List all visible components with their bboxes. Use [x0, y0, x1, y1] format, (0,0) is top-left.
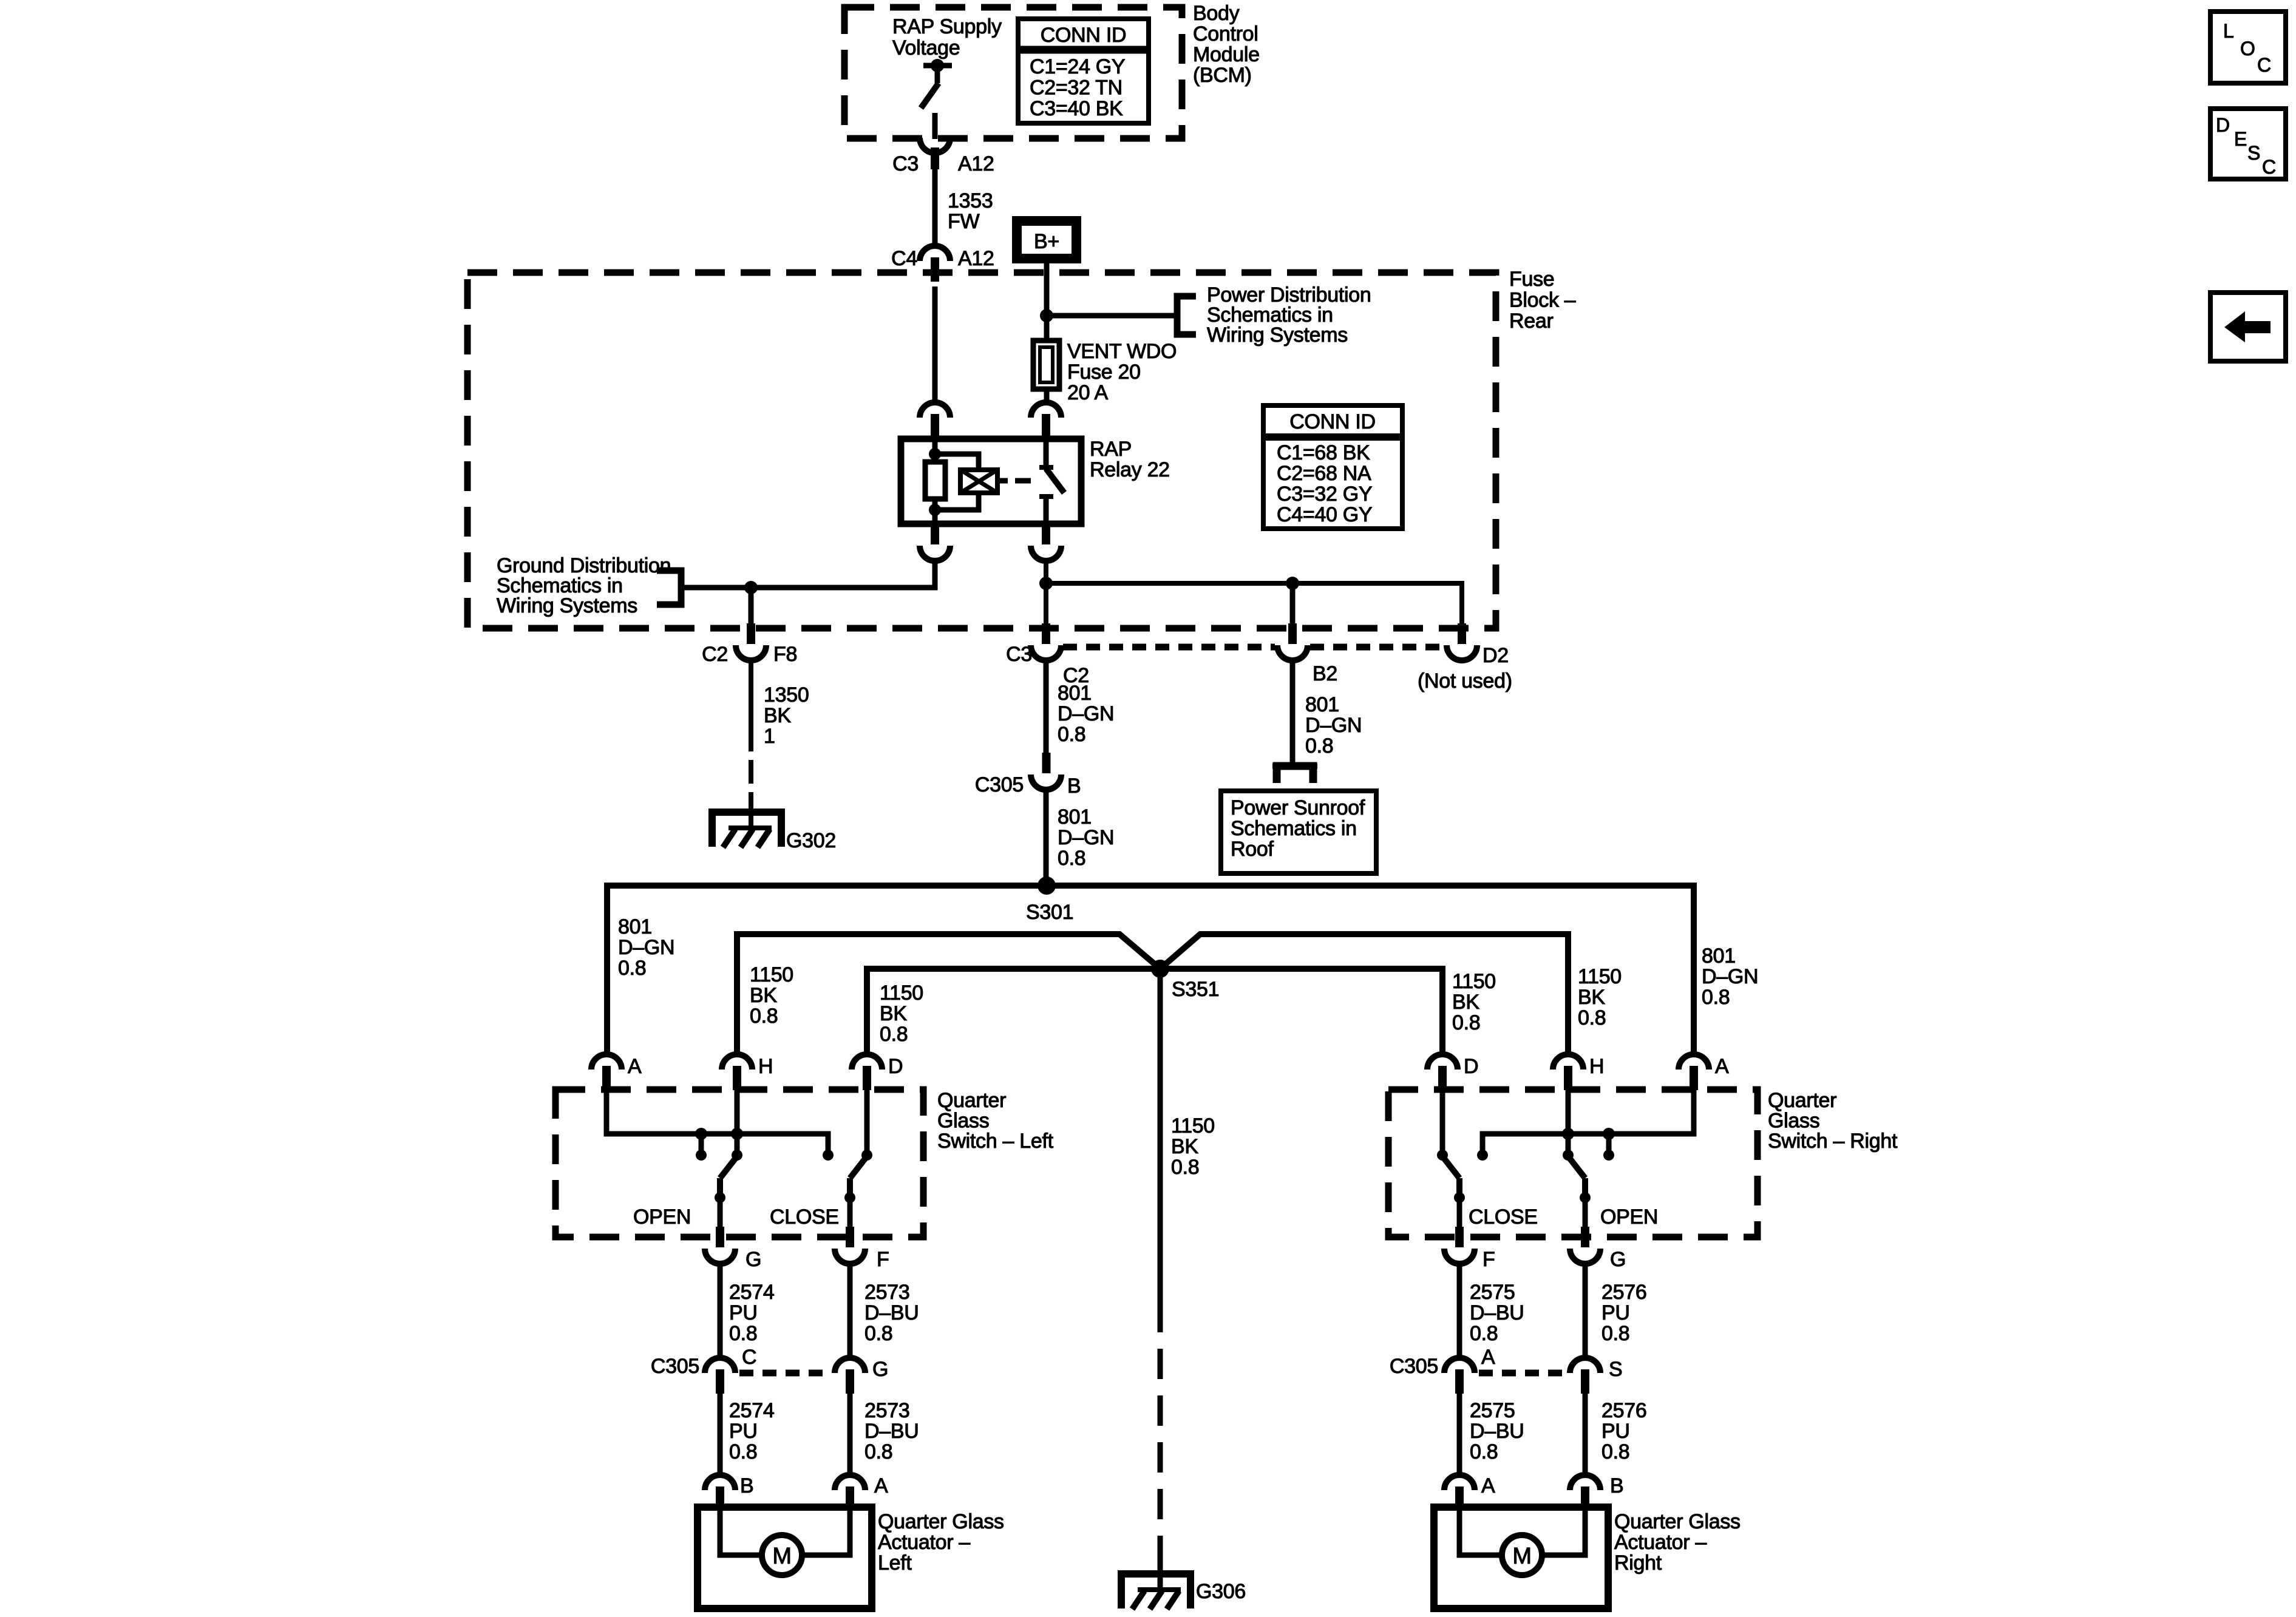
svg-text:0.8: 0.8	[1601, 1440, 1629, 1463]
svg-text:D–BU: D–BU	[864, 1301, 919, 1324]
wire 2574 PU 0.8 (G to C305)	[718, 1264, 723, 1360]
contact stub (OPEN side right)	[1603, 1128, 1615, 1140]
svg-text:C3=40 BK: C3=40 BK	[1030, 97, 1123, 120]
wire BCM switch to C3	[932, 113, 938, 139]
svg-text:C1=24 GY: C1=24 GY	[1030, 55, 1125, 78]
connector H (left switch)	[722, 1054, 752, 1070]
node junction to B2	[1286, 577, 1299, 590]
svg-text:C: C	[742, 1346, 756, 1369]
svg-text:VENT WDO: VENT WDO	[1067, 340, 1177, 363]
svg-text:G: G	[1610, 1248, 1626, 1271]
wire H through bus to pivot (right)	[1566, 1090, 1571, 1153]
svg-text:CONN ID: CONN ID	[1041, 24, 1126, 47]
node: B+ junction to power distribution note	[1040, 309, 1053, 322]
svg-text:B: B	[1067, 775, 1081, 798]
svg-text:0.8: 0.8	[1702, 986, 1730, 1009]
svg-text:M: M	[772, 1544, 791, 1569]
svg-text:CLOSE: CLOSE	[770, 1205, 839, 1229]
relay switch contacts	[1044, 439, 1049, 467]
svg-text:L: L	[2223, 20, 2234, 42]
svg-text:(BCM): (BCM)	[1193, 64, 1252, 87]
svg-text:A: A	[628, 1055, 642, 1078]
svg-text:C: C	[2262, 156, 2276, 178]
svg-text:G: G	[872, 1358, 888, 1381]
svg-text:0.8: 0.8	[1452, 1011, 1480, 1034]
icon DESC box	[2210, 109, 2286, 179]
svg-text:Relay 22: Relay 22	[1090, 458, 1170, 481]
svg-text:Quarter Glass: Quarter Glass	[878, 1510, 1004, 1533]
svg-text:A: A	[1481, 1474, 1495, 1497]
connector C305 pin B (in-line)	[1042, 753, 1051, 773]
dotted link C305 A-S	[1479, 1370, 1566, 1377]
connector relay coil input (dome)	[920, 402, 950, 418]
svg-text:Body: Body	[1193, 2, 1240, 25]
svg-text:0.8: 0.8	[1171, 1156, 1199, 1179]
svg-text:801: 801	[1702, 944, 1736, 968]
ground G306	[1158, 1542, 1163, 1590]
relay coil winding box with X	[935, 454, 979, 471]
svg-text:B+: B+	[1034, 230, 1059, 253]
wire D to pivot (CLOSE right)	[1440, 1090, 1445, 1153]
svg-text:Voltage: Voltage	[892, 36, 960, 59]
wire 1150 BK 0.8 to left switch H	[735, 934, 740, 1054]
svg-text:0.8: 0.8	[1058, 723, 1085, 746]
svg-text:C4=40 GY: C4=40 GY	[1277, 503, 1372, 526]
connector F (right switch exit)	[1444, 1249, 1475, 1264]
svg-text:Schematics in: Schematics in	[1231, 817, 1357, 840]
svg-text:Quarter: Quarter	[937, 1089, 1006, 1112]
svg-text:Fuse: Fuse	[1509, 268, 1554, 291]
Quarter Glass Switch - Left dashed box	[555, 1090, 923, 1237]
svg-text:RAP: RAP	[1090, 438, 1132, 461]
svg-text:C: C	[2257, 54, 2271, 76]
svg-text:E: E	[2234, 128, 2247, 150]
node S301 splice	[607, 886, 1694, 1054]
connector G (right switch exit)	[1570, 1249, 1600, 1264]
svg-text:C3: C3	[1006, 643, 1032, 666]
svg-text:Glass: Glass	[1768, 1110, 1819, 1133]
svg-text:BK: BK	[764, 704, 791, 727]
svg-text:RAP Supply: RAP Supply	[892, 15, 1002, 38]
svg-text:A: A	[1481, 1346, 1495, 1369]
svg-text:Right: Right	[1614, 1551, 1662, 1575]
svg-text:2574: 2574	[729, 1281, 774, 1304]
svg-text:C305: C305	[651, 1355, 699, 1378]
connector C3 pin A12 (BCM exit)	[920, 138, 950, 153]
connector B (left actuator)	[705, 1475, 735, 1490]
connector C3 pin C2 (fuse block exit)	[1031, 645, 1061, 660]
svg-text:D–GN: D–GN	[1058, 826, 1114, 849]
svg-text:0.8: 0.8	[1601, 1322, 1629, 1345]
svg-text:2576: 2576	[1601, 1399, 1646, 1422]
wire 2573 D-BU 0.8 (C305 to actuator A)	[847, 1394, 853, 1475]
svg-text:Glass: Glass	[937, 1110, 989, 1133]
connector C305 pin A (in-line right)	[1444, 1358, 1475, 1373]
svg-text:A: A	[874, 1474, 888, 1497]
wire 801 D-GN 0.8 left branch to switch A	[605, 886, 610, 1054]
wire 1150 BK 0.8 to right switch H	[1566, 934, 1571, 1054]
svg-text:2575: 2575	[1470, 1281, 1515, 1304]
svg-text:801: 801	[1058, 805, 1092, 829]
wire blade to connector G	[718, 1198, 723, 1228]
svg-text:Left: Left	[878, 1551, 912, 1575]
svg-text:Quarter: Quarter	[1768, 1089, 1836, 1112]
svg-text:D: D	[1464, 1055, 1478, 1078]
svg-text:D–BU: D–BU	[1470, 1420, 1524, 1443]
svg-text:D–GN: D–GN	[1058, 702, 1114, 725]
Fuse Block - Rear dashed box	[467, 273, 1496, 628]
dotted connector-row link C3-B2-D2	[1063, 644, 1275, 651]
svg-text:C2: C2	[702, 643, 728, 666]
svg-text:Actuator –: Actuator –	[878, 1531, 970, 1554]
wire B+ junction to fuse	[1044, 316, 1050, 343]
svg-text:(Not used): (Not used)	[1418, 670, 1512, 693]
connector C305 pin C (in-line)	[705, 1358, 735, 1373]
svg-text:0.8: 0.8	[1305, 734, 1333, 758]
svg-text:PU: PU	[1601, 1420, 1630, 1443]
wire 801 D-GN 0.8 (C3 to C305)	[1044, 660, 1049, 754]
svg-text:D2: D2	[1483, 644, 1509, 667]
connector C305 pin G (in-line)	[835, 1358, 865, 1373]
svg-text:0.8: 0.8	[1470, 1322, 1498, 1345]
motor M (right actuator)	[1459, 1511, 1502, 1555]
wire A into right switch bus	[1483, 1090, 1694, 1152]
wire 2573 D-BU 0.8 (F to C305)	[847, 1264, 853, 1360]
svg-text:1350: 1350	[764, 683, 809, 707]
svg-text:CONN ID: CONN ID	[1289, 410, 1375, 433]
svg-text:M: M	[1512, 1544, 1531, 1569]
svg-text:S351: S351	[1172, 978, 1219, 1001]
icon back-arrow box	[2210, 293, 2286, 361]
wire 801 D-GN 0.8 (B2 branch)	[1290, 660, 1296, 763]
svg-text:D–BU: D–BU	[864, 1420, 919, 1443]
svg-text:Module: Module	[1193, 43, 1260, 66]
svg-text:C3=32 GY: C3=32 GY	[1277, 483, 1372, 506]
svg-text:Switch – Right: Switch – Right	[1768, 1130, 1898, 1153]
svg-text:2573: 2573	[864, 1281, 909, 1304]
svg-text:PU: PU	[729, 1420, 758, 1443]
svg-text:D–BU: D–BU	[1470, 1301, 1524, 1324]
contact from bus corner (CLOSE side)	[823, 1150, 834, 1161]
svg-text:D–GN: D–GN	[1702, 965, 1758, 988]
svg-text:1150: 1150	[880, 981, 923, 1005]
svg-text:S: S	[1609, 1358, 1622, 1381]
connector C4 pin A12 (fuse block entry)	[920, 246, 950, 261]
svg-text:2576: 2576	[1601, 1281, 1646, 1304]
svg-text:2574: 2574	[729, 1399, 774, 1422]
connector H (right switch)	[1553, 1054, 1583, 1070]
svg-text:D: D	[2216, 114, 2230, 136]
wire C4 to relay coil input	[932, 286, 938, 404]
wire 1350 BK 1	[749, 660, 753, 751]
svg-text:801: 801	[1058, 682, 1092, 705]
svg-text:Fuse 20: Fuse 20	[1067, 361, 1141, 384]
connector relay switch input (dome)	[1031, 402, 1061, 418]
connector B2 (fuse block exit)	[1277, 645, 1308, 660]
svg-text:0.8: 0.8	[729, 1322, 757, 1345]
switch RAP Supply Voltage (inside BCM)	[923, 63, 952, 69]
connector F (left switch exit)	[835, 1249, 865, 1264]
switch blade OPEN (left)	[720, 1156, 737, 1178]
svg-text:0.8: 0.8	[1470, 1440, 1498, 1463]
svg-text:BK: BK	[750, 984, 777, 1007]
svg-text:801: 801	[1305, 693, 1339, 716]
bracket: Power Distribution Schematics in Wiring Systems	[1177, 296, 1196, 334]
wire ground distribution bus	[681, 560, 935, 588]
svg-text:0.8: 0.8	[864, 1322, 892, 1345]
connector D (right switch)	[1427, 1054, 1458, 1070]
switch blade OPEN (right)	[1568, 1156, 1585, 1178]
svg-text:1150: 1150	[1452, 970, 1496, 993]
svg-text:A12: A12	[958, 247, 994, 270]
svg-text:H: H	[1589, 1055, 1604, 1078]
svg-text:CLOSE: CLOSE	[1469, 1205, 1538, 1229]
wire 2576 PU 0.8 (C305 to actuator B)	[1583, 1394, 1588, 1475]
connector B (right actuator)	[1570, 1475, 1600, 1490]
wire 801 D-GN 0.8 right branch to switch A	[1691, 886, 1697, 1054]
Power Sunroof Schematics in Roof box	[1221, 791, 1376, 873]
svg-text:Block –: Block –	[1509, 289, 1576, 312]
svg-text:G: G	[746, 1248, 761, 1271]
svg-text:0.8: 0.8	[880, 1023, 908, 1046]
svg-text:BK: BK	[1171, 1135, 1198, 1158]
connector A (left switch)	[591, 1054, 622, 1070]
svg-text:1150: 1150	[1578, 965, 1622, 988]
wire 1150 BK 0.8 to right switch D	[1440, 969, 1445, 1054]
resistor (relay coil resistor)	[925, 462, 945, 499]
dotted link C305 C-G	[739, 1370, 830, 1377]
svg-text:G302: G302	[786, 829, 836, 852]
svg-text:PU: PU	[729, 1301, 758, 1324]
svg-text:F: F	[877, 1248, 889, 1271]
B+ battery feed box	[1017, 221, 1076, 259]
svg-text:C2=68 NA: C2=68 NA	[1277, 462, 1371, 485]
connector relay switch output (cup)	[1031, 546, 1061, 561]
svg-text:PU: PU	[1601, 1301, 1630, 1324]
svg-text:0.8: 0.8	[1578, 1006, 1606, 1029]
wire 801 D-GN 0.8 (C305 to S301)	[1044, 790, 1049, 886]
svg-text:20 A: 20 A	[1067, 381, 1108, 404]
svg-text:B: B	[740, 1474, 753, 1497]
svg-text:Rear: Rear	[1509, 310, 1554, 333]
contact stub (OPEN side)	[695, 1128, 707, 1140]
Quarter Glass Actuator - Right box	[1434, 1507, 1608, 1609]
svg-text:0.8: 0.8	[729, 1440, 757, 1463]
svg-text:B2: B2	[1313, 662, 1337, 685]
Quarter Glass Actuator - Left box	[698, 1507, 872, 1609]
svg-text:BK: BK	[1452, 991, 1479, 1014]
svg-text:H: H	[758, 1055, 773, 1078]
svg-text:2573: 2573	[864, 1399, 909, 1422]
svg-text:Wiring Systems: Wiring Systems	[1207, 324, 1348, 347]
svg-text:A: A	[1715, 1055, 1729, 1078]
svg-text:Actuator –: Actuator –	[1614, 1531, 1707, 1554]
svg-text:C1=68 BK: C1=68 BK	[1277, 441, 1370, 464]
wire H through bus to pivot	[735, 1090, 740, 1153]
svg-text:Switch – Left: Switch – Left	[937, 1130, 1054, 1153]
svg-text:S301: S301	[1026, 901, 1073, 924]
svg-text:C3: C3	[892, 152, 919, 175]
ground G302	[712, 812, 781, 847]
svg-text:OPEN: OPEN	[1600, 1205, 1658, 1229]
wire 2574 PU 0.8 (C305 to actuator B)	[718, 1394, 723, 1475]
svg-text:F8: F8	[773, 643, 797, 666]
svg-text:D–GN: D–GN	[618, 936, 674, 959]
connector relay coil output (cup)	[920, 546, 950, 561]
wire 2575 D-BU 0.8 (C305 to actuator A)	[1457, 1394, 1462, 1475]
wire B+ into fuse block	[1044, 259, 1050, 316]
svg-text:O: O	[2240, 38, 2255, 59]
wire A into left switch bus	[606, 1090, 828, 1152]
wire 2575 D-BU 0.8 (F to C305)	[1457, 1264, 1462, 1360]
wire 1150 BK 0.8 to left switch D	[864, 969, 870, 1054]
svg-text:FW: FW	[948, 210, 979, 233]
motor M (left actuator)	[720, 1511, 763, 1555]
svg-text:F: F	[1483, 1248, 1495, 1271]
svg-text:Roof: Roof	[1231, 838, 1274, 861]
node junction to C2/F8	[744, 581, 758, 594]
svg-text:BK: BK	[1578, 986, 1605, 1009]
svg-text:1150: 1150	[1171, 1114, 1215, 1137]
relay RAP Relay 22 box	[901, 439, 1081, 524]
node S351 splice with diagonals	[737, 934, 1160, 1054]
svg-text:Wiring Systems: Wiring Systems	[497, 594, 637, 617]
svg-text:0.8: 0.8	[750, 1005, 778, 1028]
fuse VENT WDO Fuse 20 20A	[1033, 341, 1059, 389]
connector D (left switch)	[852, 1054, 882, 1070]
svg-text:1353: 1353	[948, 189, 993, 212]
fuse block CONN ID box	[1263, 405, 1402, 529]
connector G (left switch exit)	[705, 1249, 735, 1264]
connector C305 pin S (in-line right)	[1570, 1358, 1600, 1373]
contact from bus corner (CLOSE side right)	[1477, 1150, 1488, 1161]
svg-text:0.8: 0.8	[1058, 847, 1085, 870]
Quarter Glass Switch - Right dashed box	[1388, 1090, 1758, 1237]
wire 1150 BK 0.8 S351 to G306	[1158, 969, 1163, 1302]
svg-text:801: 801	[618, 915, 652, 938]
connector D2 (fuse block exit, not used)	[1447, 645, 1477, 660]
svg-text:D–GN: D–GN	[1305, 714, 1362, 737]
wire relay switch output to B2/D2 branch	[1044, 560, 1048, 625]
svg-text:Power Sunroof: Power Sunroof	[1231, 796, 1365, 819]
wire 2576 PU 0.8 (G to C305)	[1583, 1264, 1588, 1360]
off-page fork to Power Sunroof	[1277, 766, 1313, 783]
svg-text:BK: BK	[880, 1002, 907, 1025]
svg-text:D: D	[888, 1055, 903, 1078]
wire 1353 FW	[932, 168, 938, 246]
wire D to pivot (CLOSE)	[864, 1090, 870, 1153]
BCM CONN ID box	[1018, 19, 1149, 123]
svg-text:C2=32 TN: C2=32 TN	[1030, 76, 1123, 100]
svg-text:C305: C305	[1390, 1355, 1438, 1378]
BCM dashed box (Body Control Module)	[844, 7, 1182, 138]
connector A (right actuator)	[1444, 1475, 1475, 1490]
switch blade CLOSE (right)	[1442, 1156, 1459, 1178]
svg-text:B: B	[1610, 1474, 1623, 1497]
connector A (right switch)	[1679, 1054, 1709, 1070]
connector C2 pin F8 (fuse block exit)	[736, 645, 766, 660]
svg-text:0.8: 0.8	[864, 1440, 892, 1463]
svg-text:S: S	[2247, 142, 2260, 164]
connector A (left actuator)	[835, 1475, 865, 1490]
svg-text:C4: C4	[891, 247, 917, 270]
svg-text:1: 1	[764, 725, 775, 748]
svg-text:1150: 1150	[750, 963, 793, 986]
svg-text:2575: 2575	[1470, 1399, 1515, 1422]
switch blade CLOSE (left)	[850, 1156, 867, 1178]
svg-text:Quarter Glass: Quarter Glass	[1614, 1510, 1741, 1533]
relay coil branch	[932, 439, 938, 463]
svg-text:Control: Control	[1193, 22, 1258, 46]
svg-text:OPEN: OPEN	[633, 1205, 691, 1229]
svg-text:A12: A12	[958, 152, 994, 175]
svg-text:G306: G306	[1196, 1580, 1246, 1603]
svg-text:0.8: 0.8	[618, 957, 646, 980]
svg-text:C305: C305	[975, 773, 1024, 796]
icon LOC box	[2210, 12, 2286, 83]
